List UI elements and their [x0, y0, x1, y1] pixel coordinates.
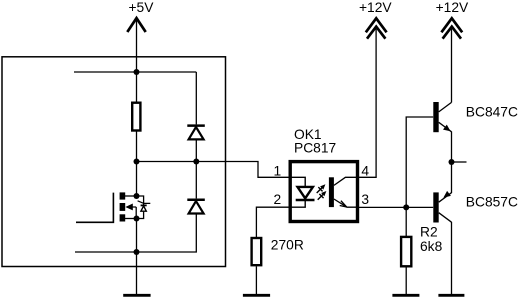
node top rail junction — [134, 69, 140, 75]
transistor Q3 MOSFET — [76, 192, 137, 222]
light arrow 1 — [317, 184, 326, 193]
wire pin2 to 270R — [256, 207, 289, 238]
svg-text:6k8: 6k8 — [420, 239, 443, 254]
wire R1 bottom lead — [136, 132, 138, 162]
wire D2 top lead — [195, 162, 197, 199]
node lower rail — [134, 249, 140, 255]
svg-text:1: 1 — [274, 163, 282, 178]
optocoupler OK1 PC817 box — [290, 162, 357, 222]
wire pin4 to +12V rail — [357, 29, 376, 177]
svg-text:+12V: +12V — [359, 0, 392, 15]
wire Q3 drain drop — [136, 162, 138, 197]
+12V supply arrow 2 — [441, 18, 462, 38]
node base junction — [403, 204, 409, 210]
svg-text:4: 4 — [361, 163, 369, 178]
phototransistor inside OK1 — [329, 177, 357, 207]
wire output stub — [452, 161, 467, 163]
+12V supply arrow 1 — [366, 18, 387, 38]
+5V supply arrow — [127, 18, 145, 32]
light arrow 2 — [318, 191, 327, 200]
wire pin3 to bases — [357, 206, 433, 208]
ground right — [438, 294, 464, 297]
diode body diode of Q3 — [137, 196, 151, 219]
wire D2 bottom to lower rail — [75, 215, 196, 253]
ground R2 — [392, 294, 419, 297]
wire Q3 source to lower rail — [136, 219, 138, 253]
svg-text:2: 2 — [274, 192, 282, 207]
wire top inner rail — [74, 71, 196, 73]
wire Q2 collector to ground — [451, 222, 453, 295]
transistor Q1 BC847C — [433, 102, 451, 132]
wire D1 to mid rail — [195, 140, 197, 161]
resistor R1 — [132, 103, 140, 131]
svg-text:R2: R2 — [420, 225, 438, 240]
wire base junction down to R2 — [405, 207, 407, 237]
node mid rail diode — [193, 159, 199, 165]
ground left — [123, 294, 150, 297]
wire 270R to ground — [255, 266, 257, 294]
diode D2 — [187, 200, 205, 214]
svg-text:BC857C: BC857C — [466, 195, 518, 210]
module box — [2, 57, 226, 267]
wire D1 anode drop — [195, 72, 197, 124]
node output — [449, 159, 455, 165]
wire Q2 emitter to output node — [451, 162, 453, 193]
svg-text:+5V: +5V — [129, 0, 155, 15]
wire Q1 emitter to output node — [451, 132, 453, 163]
wire R1 top lead — [136, 72, 138, 102]
wire +5V rail vertical — [136, 20, 138, 73]
wire base junction up to Q1 base — [406, 117, 433, 207]
node Q3 drain — [134, 193, 140, 199]
svg-text:+12V: +12V — [436, 0, 469, 15]
resistor R2 — [401, 237, 411, 266]
wire mid rail to optocoupler pin 1 — [137, 162, 290, 178]
wire Q1 collector to +12V — [451, 29, 453, 102]
transistor Q2 BC857C — [433, 191, 451, 223]
svg-text:BC847C: BC847C — [466, 105, 518, 120]
node mid rail left — [134, 159, 140, 165]
svg-text:3: 3 — [361, 192, 369, 207]
svg-text:PC817: PC817 — [294, 140, 336, 155]
svg-text:270R: 270R — [271, 238, 304, 253]
diode D1 — [187, 126, 205, 140]
node Q3 source — [134, 216, 140, 222]
wire R2 to ground — [405, 267, 407, 295]
LED inside OK1 — [291, 177, 315, 207]
wire to ground left — [136, 252, 138, 295]
resistor 270R — [252, 238, 262, 265]
ground 270R — [243, 294, 270, 297]
